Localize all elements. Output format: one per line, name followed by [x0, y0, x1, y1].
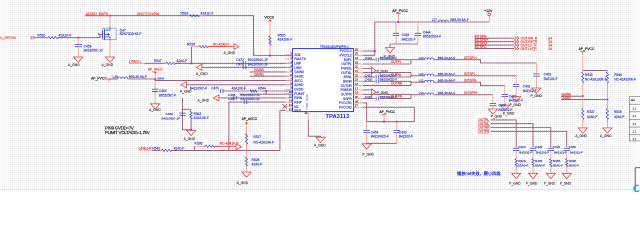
svg-text:R538: R538 — [614, 110, 622, 114]
chain C401 — [504, 86, 506, 94]
svg-text:A_GND: A_GND — [314, 144, 326, 148]
svg-text:A_GND: A_GND — [224, 51, 236, 55]
svg-text:NC-42A0-F: NC-42A0-F — [213, 42, 230, 46]
svg-text:AUDIO_EAPD: AUDIO_EAPD — [86, 12, 109, 16]
wire — [183, 129, 192, 131]
junction — [397, 21, 399, 23]
svg-text:OUTNL: OUTNL — [391, 73, 402, 77]
svg-text:B42105UC-1F: B42105UC-1F — [240, 97, 260, 101]
svg-text:42A3.3K-F: 42A3.3K-F — [194, 116, 209, 120]
wire — [182, 98, 184, 130]
svg-text:B65-30-6A-F: B65-30-6A-F — [450, 18, 468, 22]
svg-text:OUTPR: OUTPR — [391, 95, 403, 99]
svg-text:L27: L27 — [432, 18, 438, 22]
resistor R456 — [550, 157, 552, 159]
svg-text:1 2: 1 2 — [633, 122, 637, 126]
wire GAIN0 — [561, 95, 583, 97]
wire — [58, 37, 78, 39]
ground P_GND — [500, 105, 509, 110]
page bottom edge — [0, 189, 640, 191]
svg-text:AP_PVCC: AP_PVCC — [392, 9, 408, 13]
resistor R430 — [532, 157, 534, 159]
ground A_GND — [187, 130, 196, 135]
svg-text:R528: R528 — [252, 158, 260, 162]
chain C403 — [535, 63, 537, 73]
wire GAIN1 — [561, 99, 607, 101]
wire — [250, 75, 293, 77]
resistor R496 — [566, 157, 568, 159]
svg-text:42A0-F: 42A0-F — [587, 115, 598, 119]
svg-text:R547: R547 — [154, 59, 162, 63]
wire C418 row — [363, 98, 375, 100]
junction — [269, 54, 271, 56]
svg-text:B42105IC-F: B42105IC-F — [190, 87, 207, 91]
capacitor C420 — [375, 79, 377, 83]
capacitor C464 — [152, 88, 159, 90]
wire — [246, 166, 248, 172]
svg-text:OUT-LN_R: OUT-LN_R — [521, 47, 538, 51]
svg-text:LINE2-L: LINE2-L — [129, 60, 142, 64]
capacitor C471 — [242, 65, 244, 69]
junction — [374, 50, 376, 52]
wire — [582, 51, 584, 70]
svg-text:1 2: 1 2 — [633, 107, 637, 111]
svg-text:B42104ZD-F: B42104ZD-F — [371, 135, 389, 139]
svg-text:C403: C403 — [544, 73, 552, 77]
svg-text:P_GND: P_GND — [491, 114, 503, 118]
capacitor C472 — [242, 61, 244, 65]
wire — [190, 47, 192, 64]
svg-text:42A0-F: 42A0-F — [177, 59, 188, 63]
wire — [77, 47, 79, 57]
wire GVDD — [223, 90, 293, 92]
svg-text:VCC3: VCC3 — [265, 16, 274, 20]
wire — [246, 150, 248, 157]
ground P_GND — [385, 48, 394, 53]
ground arrow P_GND (PGNDR) — [363, 89, 372, 91]
resistor R536 — [193, 146, 195, 150]
IC U? TPA3113 body — [293, 49, 354, 112]
junction — [109, 15, 111, 17]
capacitor C418 — [375, 97, 377, 101]
resistor R429 — [515, 157, 517, 159]
wire — [532, 167, 534, 174]
IC pin stubs right — [354, 50, 364, 52]
svg-text:P_GND: P_GND — [510, 103, 522, 107]
svg-text:R537: R537 — [587, 110, 595, 114]
capacitor C459 — [75, 44, 83, 46]
junction — [154, 78, 156, 80]
ground A_GND — [151, 104, 160, 109]
svg-text:PWR_GND: PWR_GND — [305, 93, 309, 109]
capacitor C429 — [548, 147, 554, 149]
svg-text:播放net失效，颗小四路: 播放net失效，颗小四路 — [457, 170, 501, 177]
wire — [128, 78, 156, 80]
wire PBTL — [280, 111, 285, 151]
wire — [410, 73, 412, 77]
ground arrow A_GND — [213, 95, 219, 101]
capacitor C467 — [243, 100, 245, 104]
wire INTSPL+ — [434, 60, 537, 63]
svg-text:C420: C420 — [365, 78, 373, 82]
wire AGND — [187, 84, 293, 86]
wire — [491, 120, 517, 147]
wire INTSPR- — [434, 82, 505, 86]
svg-text:C425: C425 — [535, 145, 543, 149]
wire — [566, 167, 568, 174]
svg-text:B42331-F: B42331-F — [554, 151, 567, 155]
ground P_GND — [362, 144, 371, 149]
svg-text:65A0-F: 65A0-F — [569, 163, 579, 167]
wire OUT row — [363, 63, 411, 65]
svg-text:GAIN1: GAIN1 — [254, 72, 264, 76]
svg-text:P_GND: P_GND — [363, 153, 375, 157]
wire OUT row — [363, 72, 411, 74]
svg-text:L19: L19 — [419, 91, 424, 95]
svg-text:A_GND: A_GND — [237, 181, 249, 185]
capacitor C422 — [375, 58, 377, 62]
svg-text:A_GND: A_GND — [600, 134, 612, 138]
resistor R537 — [582, 96, 584, 108]
svg-text:C429: C429 — [553, 145, 561, 149]
svg-text:B42331-F: B42331-F — [536, 151, 549, 155]
ground P_GND — [528, 173, 537, 178]
svg-text:P_GND: P_GND — [560, 181, 572, 185]
wire AVCC — [155, 79, 292, 81]
resistor R545 — [582, 70, 584, 72]
svg-text:NC-42A100K-F: NC-42A100K-F — [585, 77, 607, 81]
IC pin stubs left — [285, 54, 292, 56]
svg-text:GA: GA — [631, 98, 635, 102]
wire — [35, 37, 48, 39]
wire — [367, 142, 397, 144]
svg-text:B42102-F: B42102-F — [523, 89, 537, 93]
svg-text:PVCCR2: PVCCR2 — [339, 105, 352, 109]
svg-text:42A1K-F: 42A1K-F — [201, 12, 214, 16]
svg-text:65A0-F: 65A0-F — [535, 163, 545, 167]
junction — [190, 62, 192, 64]
ground A_GND — [316, 137, 325, 142]
svg-text:B42105IC-1F: B42105IC-1F — [84, 49, 104, 53]
svg-text:A_GND: A_GND — [68, 63, 80, 67]
wire — [491, 128, 551, 148]
X no-connect — [283, 104, 287, 108]
ground A_GND — [578, 128, 587, 133]
wire — [410, 94, 412, 98]
svg-text:42A0-F: 42A0-F — [174, 146, 185, 150]
svg-text:R539: R539 — [187, 42, 195, 46]
wire — [109, 78, 118, 80]
chain C400 — [492, 95, 494, 103]
ground arrow A_GND — [181, 82, 187, 88]
junction — [245, 149, 247, 151]
svg-text:42A1K-F: 42A1K-F — [59, 34, 72, 38]
svg-text:1 2: 1 2 — [633, 114, 637, 118]
ground arrow P_GND (PGNDL) — [363, 67, 372, 69]
svg-text:R536: R536 — [194, 142, 202, 146]
wire LINP — [145, 62, 166, 64]
wire PVCCR2 — [363, 107, 414, 122]
ground arrow A_GND — [196, 64, 202, 70]
capacitor C433 — [396, 122, 398, 131]
svg-text:PBTL: PBTL — [294, 109, 302, 113]
wire — [410, 81, 412, 85]
svg-text:B42105UC-1F: B42105UC-1F — [248, 62, 268, 66]
ground A_GND — [105, 57, 114, 62]
svg-text:P_GND: P_GND — [509, 181, 521, 185]
wire — [172, 149, 281, 151]
svg-text:R527: R527 — [253, 135, 261, 139]
resistor R546 — [606, 70, 608, 72]
ground P_GND — [488, 109, 497, 114]
wire AP_AVCC rail — [154, 75, 156, 104]
wire C420 row — [363, 80, 375, 82]
svg-text:SHUTDOWN#: SHUTDOWN# — [137, 12, 160, 16]
svg-text:NC-42A100K-F: NC-42A100K-F — [614, 77, 636, 81]
wire OUT row — [363, 85, 411, 87]
capacitor C428 — [395, 22, 397, 33]
port arrow — [236, 144, 242, 150]
wire — [515, 167, 517, 174]
svg-text:P_GND: P_GND — [544, 181, 556, 185]
transistor Q47 — [103, 29, 105, 39]
wire — [77, 38, 79, 45]
svg-text:L26: L26 — [113, 75, 119, 79]
svg-text:OUTPL: OUTPL — [391, 60, 402, 64]
svg-text:C430: C430 — [569, 145, 577, 149]
svg-text:TPA3113: TPA3113 — [326, 114, 351, 120]
svg-text:B42102-F: B42102-F — [399, 135, 413, 139]
wire — [109, 16, 111, 27]
wire — [308, 120, 320, 137]
svg-text:AP_AVCC: AP_AVCC — [148, 67, 164, 71]
svg-text:PLIMIT VOLTAGE=1.76V: PLIMIT VOLTAGE=1.76V — [105, 130, 150, 135]
svg-text:R542: R542 — [152, 146, 160, 150]
svg-text:B42102-F: B42102-F — [509, 98, 523, 102]
wire source — [109, 41, 111, 58]
svg-text:X_GPIO81: X_GPIO81 — [0, 36, 17, 40]
svg-text:A_GND: A_GND — [575, 134, 587, 138]
svg-text:P_GND: P_GND — [503, 111, 515, 115]
wire — [491, 124, 534, 148]
capacitor C430 — [564, 147, 570, 149]
svg-text:C469: C469 — [166, 112, 174, 116]
svg-text:R544: R544 — [258, 87, 266, 91]
svg-text:A_GND: A_GND — [102, 63, 114, 67]
resistor R525 — [269, 34, 271, 36]
wire OUT row — [363, 93, 411, 95]
ground P_GND — [546, 173, 555, 178]
ground P_GND — [512, 97, 521, 102]
wire — [250, 71, 293, 73]
svg-text:R496: R496 — [569, 159, 577, 163]
svg-text:R430: R430 — [535, 159, 543, 163]
svg-text:42A0-F: 42A0-F — [614, 115, 625, 119]
svg-text:R531: R531 — [181, 12, 189, 16]
capacitor C444 — [417, 22, 419, 33]
svg-text:1 2: 1 2 — [633, 130, 637, 134]
junction — [190, 129, 192, 131]
svg-text:AP_AVCC: AP_AVCC — [242, 117, 258, 121]
wire AP_PVCC rail — [367, 121, 415, 123]
wire RINP — [229, 102, 285, 150]
resistor R543 — [190, 109, 192, 111]
svg-text:AP_PVCC: AP_PVCC — [379, 110, 395, 114]
wire RINN — [220, 97, 293, 99]
svg-text:A_GND: A_GND — [198, 98, 210, 102]
svg-text:1 2: 1 2 — [633, 137, 637, 141]
wire — [550, 150, 552, 158]
svg-text:C424: C424 — [518, 145, 526, 149]
capacitor C425 — [530, 147, 536, 149]
svg-text:B2N7002HG-F: B2N7002HG-F — [120, 32, 142, 36]
svg-text:B42331-F: B42331-F — [570, 151, 583, 155]
ground A_GND — [242, 172, 251, 177]
junction — [265, 90, 267, 92]
svg-text:B42105IC-1F: B42105IC-1F — [162, 117, 181, 121]
svg-text:P_GND: P_GND — [526, 181, 538, 185]
wire — [390, 43, 418, 45]
wire INTSPR+ — [434, 94, 493, 96]
ground P_GND — [532, 88, 541, 93]
junction — [383, 121, 385, 123]
resistor R544 — [248, 90, 250, 92]
wire — [550, 167, 552, 174]
svg-text:NC-42A10K-F: NC-42A10K-F — [253, 141, 274, 145]
port arrow — [234, 44, 239, 49]
svg-text:R520: R520 — [38, 34, 46, 38]
svg-text:C422: C422 — [365, 56, 373, 60]
junction — [77, 37, 79, 39]
capacitor C469 — [179, 112, 185, 114]
svg-text:AP_PVCC: AP_PVCC — [579, 47, 595, 51]
ground P_GND — [512, 173, 521, 178]
svg-text:42A0-F: 42A0-F — [252, 163, 263, 167]
wire — [410, 60, 412, 64]
svg-text:42A10K-F: 42A10K-F — [278, 38, 293, 42]
capacitor C468 — [233, 96, 235, 100]
wire INTSPL- — [434, 75, 517, 77]
svg-text:B65105IC-F: B65105IC-F — [159, 93, 176, 97]
wire — [491, 131, 567, 147]
wire PLIMIT — [240, 93, 293, 95]
svg-text:A_GND: A_GND — [196, 72, 208, 76]
wire PVCCR1 — [363, 103, 367, 122]
svg-text:24: 24 — [548, 47, 552, 51]
capacitor C424 — [513, 147, 519, 149]
grid background — [1, 0, 637, 190]
resistor R538 — [606, 100, 608, 109]
svg-text:B42102-F: B42102-F — [544, 77, 558, 81]
svg-text:C470: C470 — [211, 87, 219, 91]
capacitor C454 — [366, 122, 368, 131]
svg-text:OUTNR: OUTNR — [391, 82, 403, 86]
title block corner — [634, 168, 636, 191]
svg-text:65A0-F: 65A0-F — [553, 163, 563, 167]
svg-text:L20: L20 — [419, 56, 424, 60]
wire — [515, 150, 517, 158]
svg-text:L22: L22 — [419, 72, 424, 76]
svg-text:R456: R456 — [553, 159, 561, 163]
wire — [532, 150, 534, 158]
wire — [269, 23, 271, 56]
wire SHUTDOWN# net — [85, 16, 293, 56]
svg-text:+12V: +12V — [484, 9, 493, 13]
svg-text:65A0-F: 65A0-F — [518, 163, 528, 167]
resistor R527 — [246, 132, 248, 134]
wire C421 row — [363, 76, 375, 78]
wire LINN — [202, 66, 293, 68]
wire — [566, 150, 568, 158]
svg-text:B65105UA-F: B65105UA-F — [423, 35, 441, 39]
wire C422 row — [363, 59, 375, 61]
gain table — [629, 97, 640, 142]
ground A_GND — [603, 128, 612, 133]
wire power rail — [375, 21, 489, 23]
wire — [246, 125, 248, 150]
wire gate — [78, 35, 102, 38]
svg-text:A_GND: A_GND — [149, 108, 161, 112]
chain C402 — [515, 76, 517, 84]
capacitor C421 — [375, 75, 377, 79]
svg-text:AP_PVCC: AP_PVCC — [91, 76, 107, 80]
svg-text:OUTPR: OUTPR — [478, 129, 490, 133]
svg-text:C418: C418 — [365, 95, 373, 99]
logo — [634, 185, 639, 191]
svg-text:B42331-F: B42331-F — [519, 151, 532, 155]
svg-text:B42102-F: B42102-F — [499, 108, 513, 112]
svg-text:R429: R429 — [518, 159, 526, 163]
wire — [176, 62, 293, 64]
wire PVCCL — [363, 50, 375, 52]
IC pin 29 PWR_GND stub — [307, 112, 309, 120]
svg-text:C471: C471 — [236, 62, 244, 66]
ground P_GND — [562, 173, 571, 178]
ground A_GND — [74, 57, 83, 62]
svg-text:42A10K-F: 42A10K-F — [232, 87, 246, 91]
resistor R528 — [246, 155, 248, 157]
svg-text:B42102-F: B42102-F — [402, 37, 416, 41]
svg-text:C464: C464 — [159, 89, 167, 93]
svg-text:C467: C467 — [228, 97, 236, 101]
svg-text:LINE2-R: LINE2-R — [139, 146, 153, 150]
svg-text:P_GND: P_GND — [531, 94, 543, 98]
svg-text:L21: L21 — [419, 78, 424, 82]
